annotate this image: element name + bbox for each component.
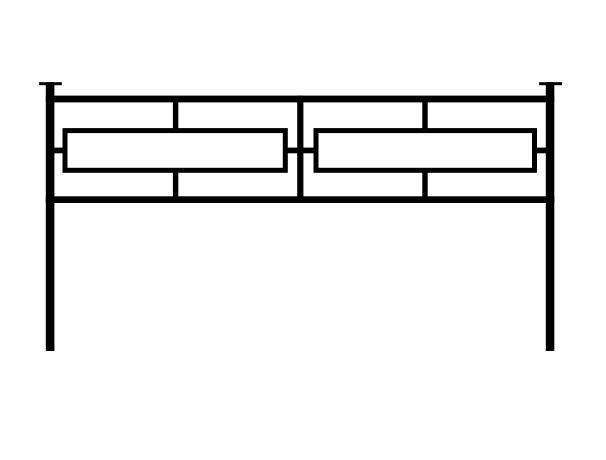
right panel lower divider [422, 169, 427, 197]
top rail [46, 96, 555, 103]
right slat to right post stub [536, 148, 548, 154]
center stile to right slat stub [303, 148, 316, 154]
right post cap [539, 82, 562, 85]
left panel upper divider [173, 102, 178, 132]
left slat frame [65, 131, 285, 171]
left post cap [39, 82, 62, 85]
left panel lower divider [173, 169, 178, 197]
right panel upper divider [422, 102, 427, 132]
left post [46, 82, 55, 351]
right slat frame [316, 131, 535, 171]
bottom rail [46, 196, 555, 203]
left post to left slat stub [54, 148, 66, 154]
center stile [297, 96, 303, 203]
right post [546, 82, 555, 351]
left slat to center stile stub [287, 148, 299, 154]
